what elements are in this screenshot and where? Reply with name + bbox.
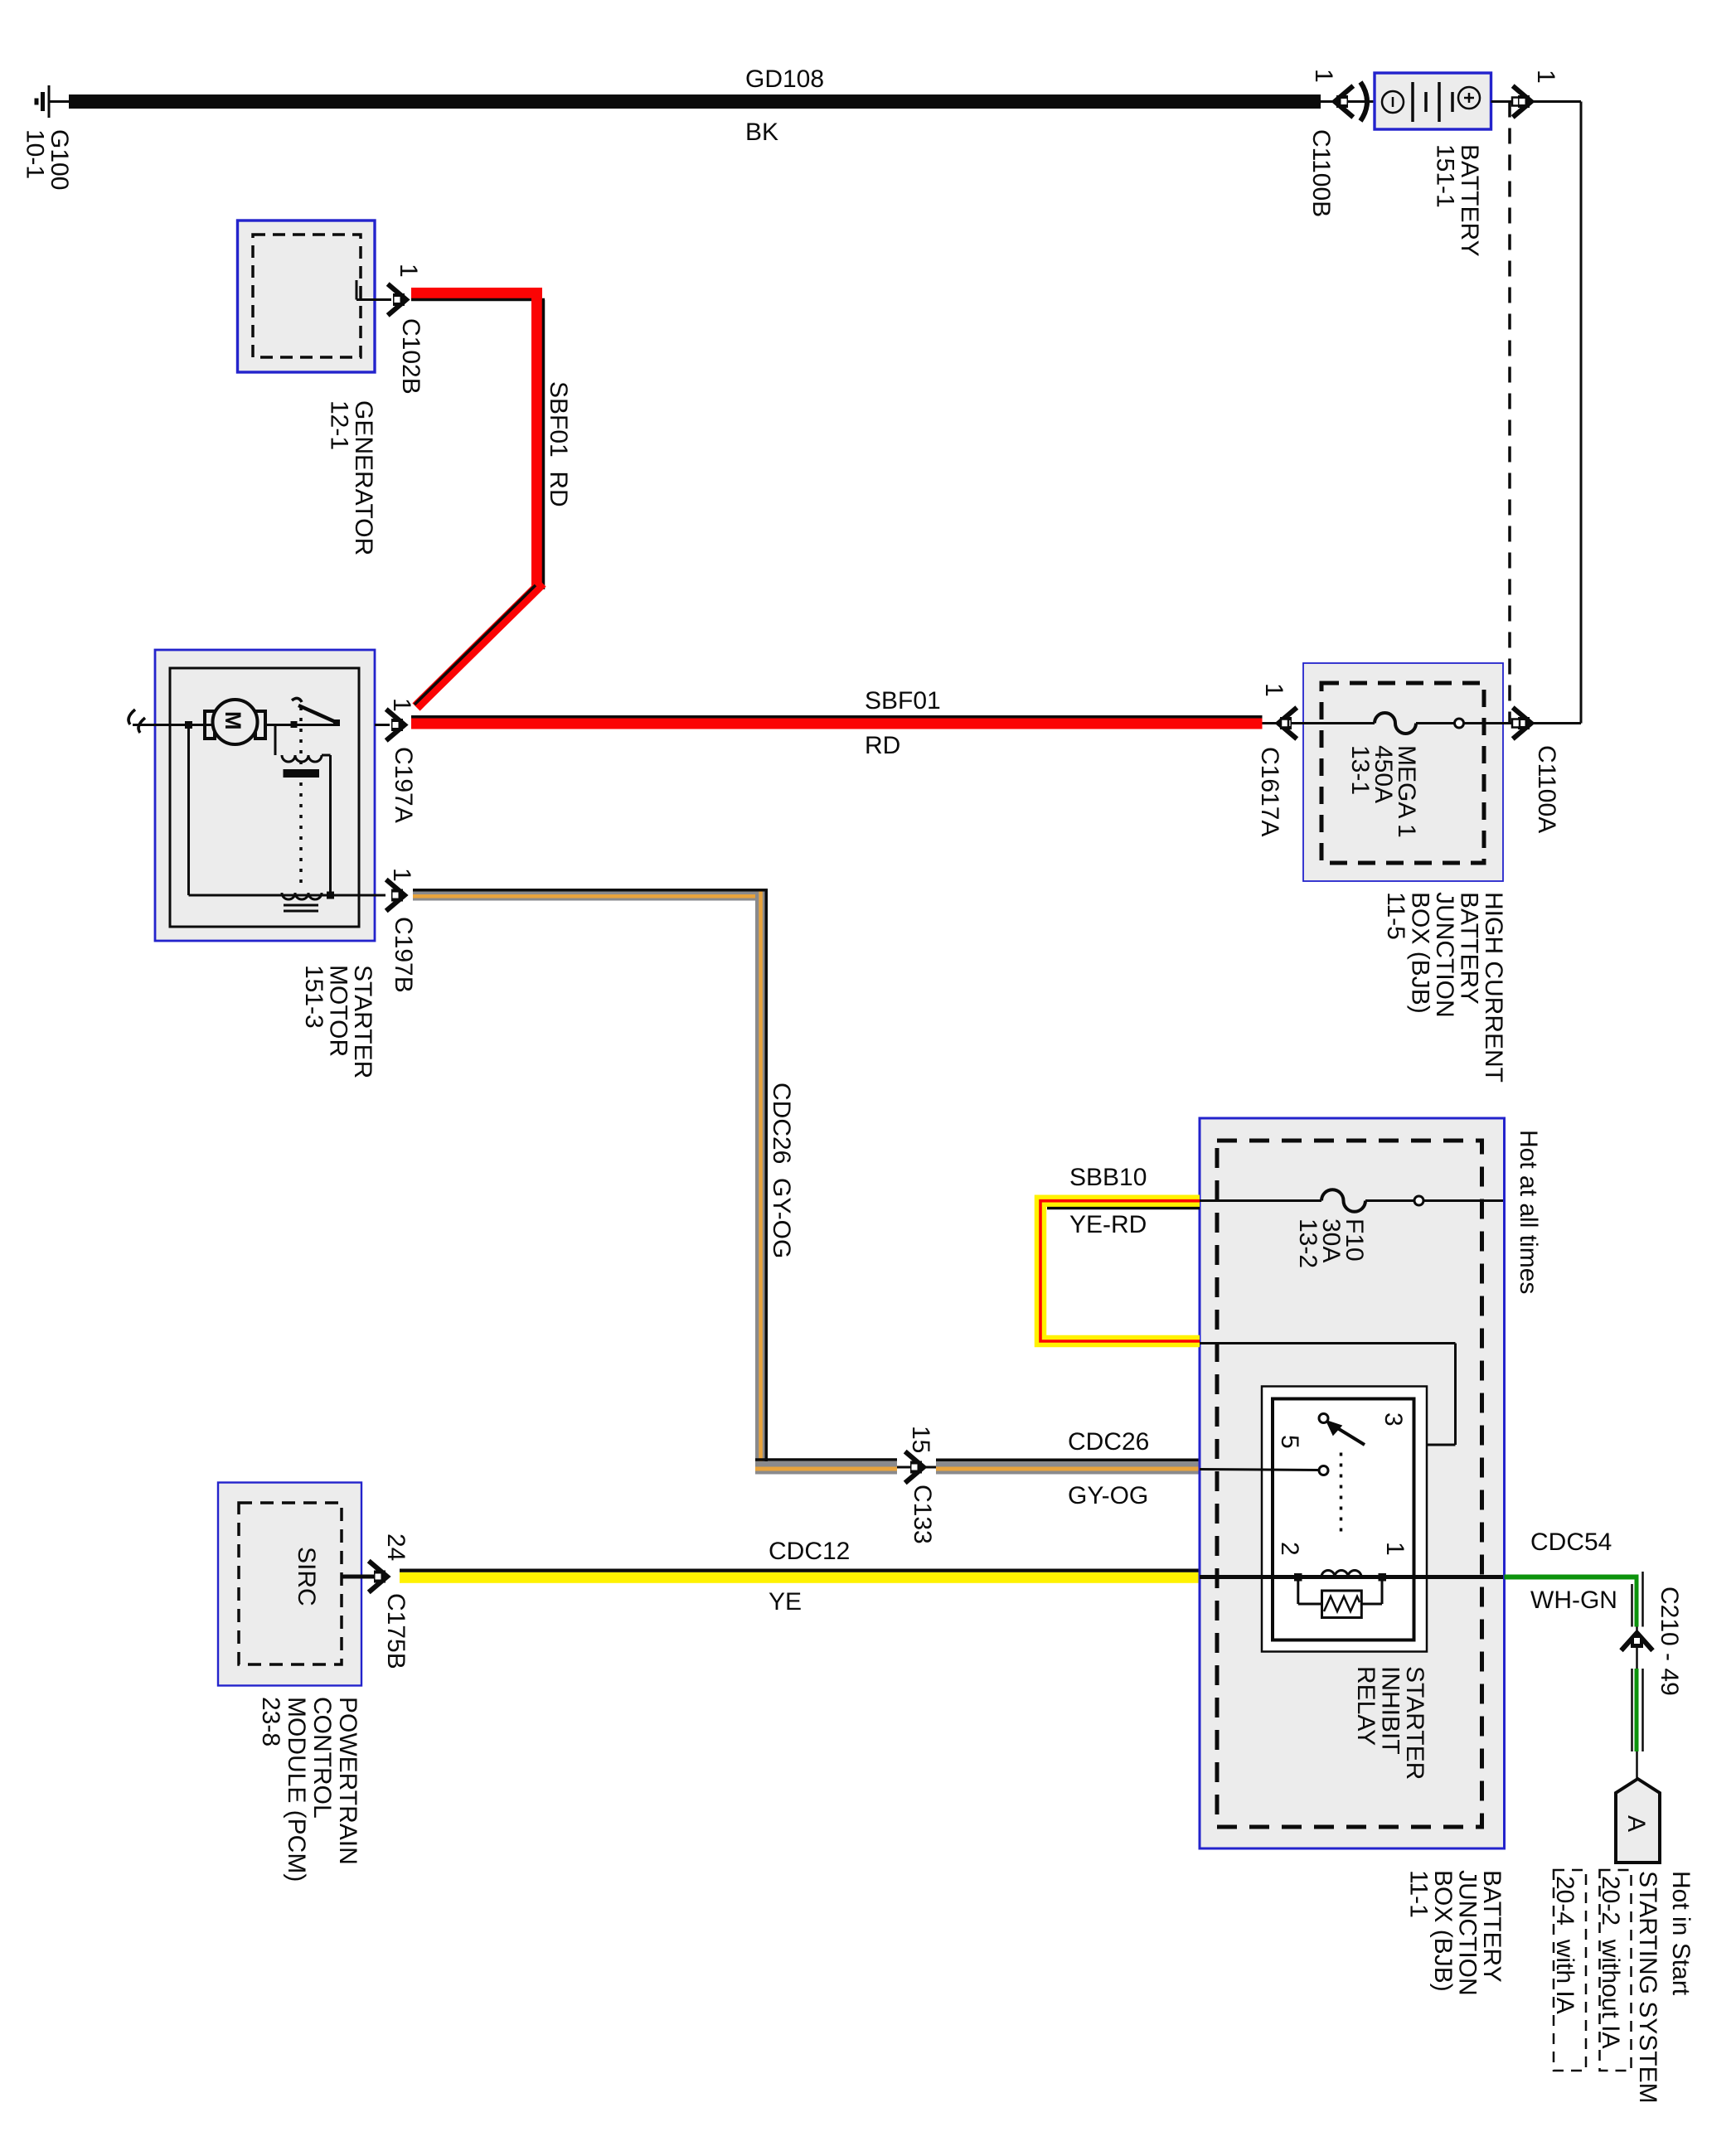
pin 1 label at C1617A <box>1260 683 1287 697</box>
pin 1 label at C197B <box>388 868 415 882</box>
wire SBB10 YE-RD loop <box>1040 1201 1200 1341</box>
wire CDC26 GY-OG vertical <box>755 892 766 1465</box>
svg-text:STARTER: STARTER <box>349 965 376 1078</box>
starter inhibit relay box <box>1262 1387 1427 1652</box>
svg-text:CDC54: CDC54 <box>1530 1528 1612 1556</box>
svg-text:15: 15 <box>907 1426 934 1453</box>
connector C210 (arrow up) <box>1623 1633 1651 1649</box>
svg-text:CDC26: CDC26 <box>1068 1428 1149 1456</box>
label C197A <box>390 747 417 823</box>
label F10 30A 13-2 <box>1294 1218 1368 1268</box>
pin 5 contact circle <box>1319 1466 1328 1475</box>
svg-text:2: 2 <box>1276 1542 1303 1556</box>
svg-text:GY-OG: GY-OG <box>1068 1482 1148 1509</box>
svg-text:151-3: 151-3 <box>300 965 327 1029</box>
svg-text:YE: YE <box>769 1588 802 1616</box>
fuse MEGA 1 450A wire row <box>1303 722 1375 724</box>
svg-text:RD: RD <box>865 732 900 759</box>
svg-text:BOX (BJB): BOX (BJB) <box>1407 892 1434 1014</box>
svg-text:SBB10: SBB10 <box>1069 1164 1147 1191</box>
svg-text:MODULE (PCM): MODULE (PCM) <box>283 1697 310 1882</box>
relay armature dotted link <box>1340 1453 1343 1534</box>
svg-text:C1100B: C1100B <box>1307 129 1335 217</box>
connector C1100B (female arrow + arc) <box>1335 88 1351 116</box>
off-page connector A to starting system <box>1616 1779 1660 1863</box>
svg-text:Hot in Start: Hot in Start <box>1667 1871 1695 1996</box>
connector C197A (male arrow) <box>375 724 390 726</box>
svg-text:SIRC: SIRC <box>293 1547 320 1606</box>
label STARTER INHIBIT RELAY <box>1352 1666 1428 1780</box>
connector C197B (male arrow) <box>388 881 405 909</box>
connector arrow near C1100A bottom (male) <box>1515 710 1531 738</box>
wire CDC26 to pin 5 <box>1200 1470 1319 1470</box>
wire CDC54 WH-GN from BJB <box>1505 1575 1637 1580</box>
svg-text:JUNCTION: JUNCTION <box>1454 1870 1481 1996</box>
svg-text:BATTERY: BATTERY <box>1456 892 1483 1005</box>
label C1100A <box>1533 745 1560 833</box>
junction dot left <box>185 721 192 729</box>
relay coil row wire <box>1200 1575 1503 1579</box>
label Hot at all times <box>1515 1130 1542 1294</box>
svg-text:STARTING SYSTEM: STARTING SYSTEM <box>1634 1871 1661 2104</box>
svg-text:BATTERY: BATTERY <box>1478 1870 1506 1983</box>
wire generator pin stub <box>356 298 391 301</box>
svg-text:C1617A: C1617A <box>1256 747 1283 836</box>
label GENERATOR 12-1 <box>326 400 378 555</box>
starter internal wires <box>187 725 190 896</box>
label BATTERY JUNCTION BOX (BJB) 11-1 <box>1405 1870 1506 1996</box>
svg-text:GD108: GD108 <box>745 65 824 93</box>
label C175B <box>382 1593 410 1669</box>
svg-text:HIGH CURRENT: HIGH CURRENT <box>1480 892 1507 1083</box>
svg-text:BK: BK <box>745 119 778 146</box>
svg-text:13-1: 13-1 <box>1346 745 1374 795</box>
pin 2 label <box>1276 1542 1303 1556</box>
svg-text:1: 1 <box>1310 69 1337 83</box>
wire battery to corner <box>1491 100 1582 103</box>
starter hold-in coil <box>282 893 322 899</box>
svg-text:M: M <box>221 711 245 730</box>
svg-text:C197B: C197B <box>390 917 417 993</box>
svg-text:1: 1 <box>395 264 422 278</box>
label MEGA 1 450A 13-1 <box>1346 745 1420 838</box>
fuse terminal circle <box>1455 719 1464 728</box>
connector C175B (male arrow) <box>371 1562 387 1591</box>
svg-text:5: 5 <box>1276 1435 1303 1449</box>
wire SBF01 RD vertical segment <box>531 288 542 588</box>
svg-text:CONTROL: CONTROL <box>308 1697 336 1819</box>
svg-text:GENERATOR: GENERATOR <box>350 400 377 555</box>
label C133 <box>909 1485 936 1544</box>
pin 1 label at C1100B <box>1310 69 1337 83</box>
battery junction box BJB 11-1 <box>1200 1118 1505 1848</box>
wire SBF01 RD from generator: top horizontal <box>411 288 542 298</box>
svg-text:Hot at all times: Hot at all times <box>1515 1130 1542 1294</box>
label BATTERY 151-1 <box>1432 144 1484 257</box>
svg-text:13-2: 13-2 <box>1294 1218 1321 1268</box>
label STARTING SYSTEM <box>1634 1871 1661 2104</box>
svg-text:1: 1 <box>388 868 415 882</box>
pin 1 label at C1100A <box>1532 70 1559 84</box>
label POWERTRAIN CONTROL MODULE (PCM) 23-8 <box>257 1697 361 1882</box>
label SIRC <box>293 1547 320 1606</box>
pin 1 label at C197A <box>388 698 415 712</box>
dashed option box 20-2 without IA <box>1600 1870 1632 2071</box>
wire CDC26 GY-OG bottom horizontal to C133 <box>755 1461 897 1475</box>
svg-text:24: 24 <box>382 1533 410 1561</box>
wire SBF01 RD diagonal segment <box>416 583 542 707</box>
svg-text:STARTER: STARTER <box>1401 1666 1428 1780</box>
pin 24 label at C175B <box>382 1533 410 1561</box>
label C210 - 49 <box>1656 1587 1683 1696</box>
connector C1100A (male arrow) <box>1512 98 1520 106</box>
coil core lines <box>284 904 318 907</box>
svg-text:3: 3 <box>1380 1412 1407 1427</box>
svg-text:C133: C133 <box>909 1485 936 1544</box>
fuse F10 30A row <box>1200 1199 1321 1202</box>
svg-text:20-2 without IA: 20-2 without IA <box>1597 1876 1624 2048</box>
solenoid switch blade <box>292 698 302 702</box>
pin 5 label <box>1276 1435 1303 1449</box>
powertrain control module PCM 23-8 <box>218 1483 361 1686</box>
dashed option box 20-4 with IA <box>1554 1870 1586 2071</box>
generator GENERATOR 12-1 <box>238 220 376 372</box>
svg-text:A: A <box>1622 1815 1650 1832</box>
pin 1 label <box>1381 1542 1409 1556</box>
solenoid core bar <box>284 769 320 778</box>
motor M circle <box>205 711 215 739</box>
label C197B <box>390 917 417 993</box>
ground squiggle at starter motor <box>129 710 145 733</box>
svg-text:RELAY: RELAY <box>1352 1666 1380 1746</box>
svg-text:MOTOR: MOTOR <box>325 965 352 1057</box>
solenoid pull-in coil <box>274 725 277 756</box>
svg-text:C175B: C175B <box>382 1593 410 1669</box>
svg-text:C197A: C197A <box>390 747 417 823</box>
svg-text:BOX (BJB): BOX (BJB) <box>1429 1870 1457 1992</box>
label SBF01 RD (vertical) <box>545 381 572 507</box>
svg-text:SBF01: SBF01 <box>865 687 941 715</box>
wire CDC26 GY-OG from C133 to BJB <box>936 1461 1200 1475</box>
svg-text:151-1: 151-1 <box>1432 144 1459 208</box>
svg-text:23-8: 23-8 <box>257 1697 284 1746</box>
dashed wire battery to BJB fuse row <box>1508 102 1511 723</box>
svg-text:10-1: 10-1 <box>22 129 49 179</box>
relay resistor <box>1297 1577 1299 1605</box>
label CDC26 GY-OG (vertical) <box>768 1083 795 1258</box>
svg-text:YE-RD: YE-RD <box>1069 1211 1147 1238</box>
relay coil <box>1321 1571 1361 1577</box>
svg-text:1: 1 <box>1260 683 1287 697</box>
pin 1 label at C102B <box>395 264 422 278</box>
label HIGH CURRENT BATTERY JUNCTION BOX (BJB) 11-5 <box>1382 892 1507 1083</box>
svg-text:G100: G100 <box>46 129 73 190</box>
wire motor to switch <box>265 724 340 726</box>
svg-text:SBF01 RD: SBF01 RD <box>545 381 572 507</box>
svg-text:POWERTRAIN: POWERTRAIN <box>334 1697 361 1865</box>
svg-text:BATTERY: BATTERY <box>1456 144 1483 257</box>
svg-text:JUNCTION: JUNCTION <box>1431 892 1458 1018</box>
label G100 10-1 <box>22 129 74 190</box>
connector C1617A (female arrow + square) <box>1263 722 1304 724</box>
starter motor STARTER MOTOR 151-3 <box>155 650 375 941</box>
relay switch blade pin3-pin5 <box>1328 1422 1365 1445</box>
svg-text:1: 1 <box>388 698 415 712</box>
label C1100B <box>1307 129 1335 217</box>
svg-text:1: 1 <box>1381 1542 1409 1556</box>
svg-text:INHIBIT: INHIBIT <box>1377 1666 1404 1755</box>
wire CDC26 GY-OG horizontal from C197B <box>413 892 764 901</box>
label C1617A <box>1256 747 1283 836</box>
label STARTER MOTOR 151-3 <box>300 965 376 1078</box>
svg-text:C210 - 49: C210 - 49 <box>1656 1587 1683 1696</box>
svg-text:12-1: 12-1 <box>326 400 353 450</box>
pin 3 label <box>1380 1412 1407 1427</box>
svg-text:11-1: 11-1 <box>1405 1870 1433 1918</box>
pin 15 label at C133 <box>907 1426 934 1453</box>
svg-text:20-4 with IA: 20-4 with IA <box>1551 1876 1578 2014</box>
svg-text:CDC26 GY-OG: CDC26 GY-OG <box>768 1083 795 1258</box>
svg-text:1: 1 <box>1532 70 1559 84</box>
high current battery junction box HIGH CURRENT BJB 11-5 <box>1303 663 1503 881</box>
svg-text:C1100A: C1100A <box>1533 745 1560 833</box>
battery BATTERY 151-1 <box>1375 73 1491 129</box>
svg-text:CDC12: CDC12 <box>769 1538 850 1565</box>
svg-text:C102B: C102B <box>397 318 424 395</box>
svg-text:11-5: 11-5 <box>1382 892 1409 940</box>
wire pin3 feed inside BJB <box>1200 1342 1456 1344</box>
solenoid actuator dotted link <box>299 707 303 768</box>
label C102B <box>397 318 424 395</box>
connector C102B (male arrow) <box>390 286 406 314</box>
svg-text:WH-GN: WH-GN <box>1530 1587 1617 1614</box>
ground G100 <box>36 85 70 118</box>
PCM pin stub wire <box>342 1575 375 1579</box>
connector C133 (male arrow) <box>897 1466 936 1469</box>
wire GD108 BK (thick black) <box>69 94 1321 109</box>
label Hot in Start <box>1667 1871 1695 1996</box>
wire right vertical down to MEGA row <box>1580 102 1583 724</box>
wire CDC12 YE from C175B to BJB <box>400 1572 1200 1583</box>
wire SBF01 RD bottom horizontal to C1617A <box>411 719 1263 729</box>
